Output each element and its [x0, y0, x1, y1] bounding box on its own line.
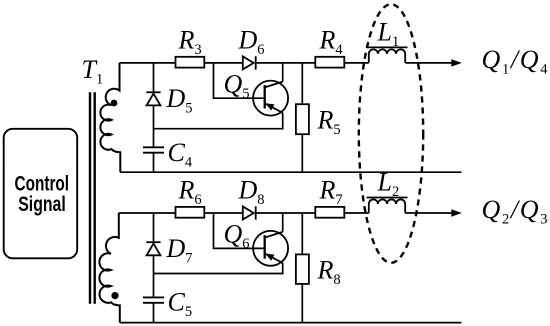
wire: Q5 collector to gate line — [282, 63, 284, 82]
wire: Q5 emitter down and across to D5 node — [154, 113, 283, 129]
arrowhead (Q1/Q4 output) — [451, 59, 462, 66]
wire: R8 top lead — [301, 213, 303, 254]
inductor L1 — [367, 47, 408, 63]
resistor R4 — [315, 57, 344, 68]
wire: top source rail — [120, 171, 461, 173]
wire: L1 to output arrow — [405, 62, 452, 64]
wire: R7 to L2 — [344, 212, 369, 214]
resistor R7 — [315, 207, 344, 218]
wire: R3 to D6 — [204, 62, 243, 64]
wire: drop to D5 node — [153, 63, 155, 92]
wire: L2 to output arrow — [405, 212, 452, 214]
svg-text:Control: Control — [15, 172, 70, 195]
wire: drop to D7 node — [153, 213, 155, 242]
T1 secondary winding (top) — [100, 63, 120, 172]
resistor R8 — [296, 254, 309, 284]
wire: Q6 collector to gate line — [282, 213, 284, 232]
wire: R6 to D8 — [204, 212, 243, 214]
T1 secondary winding (bottom) — [99, 213, 119, 323]
resistor R5 — [296, 104, 309, 134]
wire: top gate line (transformer to R3) — [120, 62, 176, 64]
resistor R3 — [176, 57, 205, 68]
wire: R8 bottom lead — [301, 284, 303, 323]
resistor R6 — [176, 207, 205, 218]
control signal box — [4, 129, 78, 258]
wire: D7 to C5 — [153, 255, 155, 297]
diode D5 — [146, 92, 160, 105]
svg-text:Q2/Q3: Q2/Q3 — [482, 195, 548, 228]
wire: D8 to R7 — [256, 212, 316, 214]
wire: base drop to Q6 — [214, 213, 265, 248]
dashed grouping ellipse around L1 and L2 — [359, 4, 423, 263]
svg-text:Signal: Signal — [18, 193, 66, 216]
wire: C4 to bottom rail — [153, 153, 155, 173]
transistor Q5 — [253, 81, 288, 116]
svg-text:Q1/Q4: Q1/Q4 — [482, 45, 549, 78]
polarity dot (bottom winding) — [111, 292, 118, 299]
wire: bottom source rail — [120, 322, 462, 324]
polarity dot (top winding) — [111, 100, 118, 107]
wire: R4 to L1 — [344, 62, 369, 64]
wire: base drop to Q5 — [214, 63, 265, 98]
Q5 emitter arrow (PNP) — [265, 103, 274, 110]
wire: Q6 emitter down and across to D7 node — [154, 263, 283, 274]
diode D7 — [146, 242, 160, 255]
wire: D6 to R4 — [256, 62, 316, 64]
diode D8 — [243, 206, 256, 219]
diode D6 — [243, 56, 256, 69]
capacitor C5 — [143, 297, 164, 302]
wire: R5 bottom lead — [301, 134, 303, 172]
Q6 emitter arrow (PNP) — [265, 254, 274, 261]
arrowhead (Q2/Q3 output) — [451, 209, 462, 216]
inductor L2 — [367, 198, 408, 214]
transformer T1 core — [90, 92, 95, 303]
capacitor C4 — [143, 147, 164, 152]
wire: C5 to bottom rail — [153, 303, 155, 323]
wire: R5 top lead — [301, 63, 303, 104]
wire: bottom gate line (transformer to R6) — [119, 212, 176, 214]
wire: D5 to C4 — [153, 105, 155, 147]
transistor Q6 — [253, 231, 288, 266]
